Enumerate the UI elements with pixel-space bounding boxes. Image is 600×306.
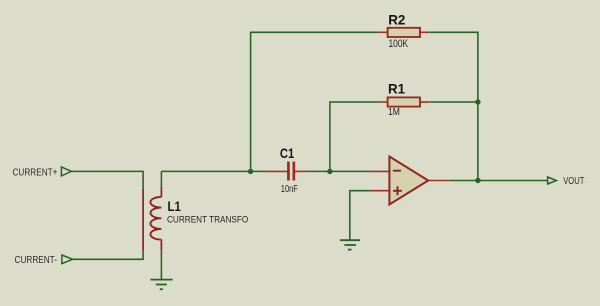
svg-text:10nF: 10nF: [281, 183, 298, 195]
svg-text:100K: 100K: [389, 38, 409, 50]
svg-text:CURRENT TRANSFO: CURRENT TRANSFO: [167, 214, 248, 224]
svg-text:L1: L1: [168, 198, 181, 214]
svg-text:CURRENT+: CURRENT+: [13, 167, 58, 178]
svg-text:CURRENT-: CURRENT-: [15, 255, 58, 266]
svg-text:C1: C1: [280, 145, 295, 161]
svg-text:R1: R1: [388, 81, 405, 97]
svg-text:VOUT: VOUT: [563, 176, 584, 187]
svg-text:R2: R2: [388, 12, 405, 28]
svg-text:1M: 1M: [388, 106, 400, 118]
